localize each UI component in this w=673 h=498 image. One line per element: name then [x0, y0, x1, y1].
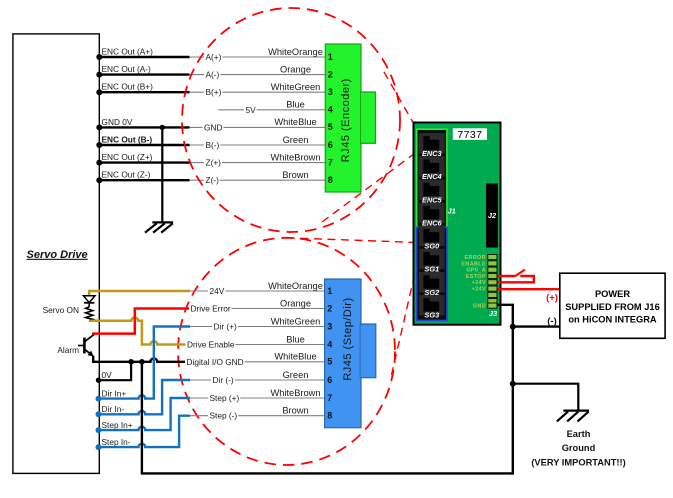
svg-text:POWER: POWER [595, 289, 630, 299]
svg-text:24V: 24V [210, 286, 225, 296]
node junction (-) [510, 324, 516, 330]
label ENC Out (B-) [102, 134, 153, 144]
svg-text:ENC Out (A+): ENC Out (A+) [102, 46, 154, 56]
pin 1 RJ45 encoder [328, 52, 333, 62]
svg-text:Dir (+): Dir (+) [214, 322, 238, 332]
wire Digital I/O GND (black, emitter to RJ45) [93, 356, 190, 362]
svg-text:(+): (+) [546, 292, 558, 303]
svg-text:WhiteGreen: WhiteGreen [271, 316, 321, 326]
svg-text:Orange: Orange [280, 64, 311, 74]
svg-text:Dir In-: Dir In- [102, 404, 125, 414]
svg-text:1: 1 [327, 286, 332, 296]
connector SG3 jack [419, 295, 445, 315]
label Dir In- [102, 404, 125, 414]
ground (signal ground under encoder GND) [145, 222, 173, 232]
pad J3-8 [488, 299, 497, 304]
svg-text:Brown: Brown [282, 170, 308, 180]
node junction ground bus [139, 359, 145, 365]
POWER SUPPLIED FROM J16 box [560, 273, 665, 338]
pin 3 RJ45 step/dir [327, 321, 332, 331]
svg-text:B(-): B(-) [206, 140, 220, 150]
label +24V [472, 287, 486, 293]
wire ENC Out (B+) from servo drive [96, 89, 189, 95]
svg-text:ENC Out (B-): ENC Out (B-) [102, 134, 153, 144]
wire color label Brown [282, 170, 308, 180]
wire color label Blue (step/dir) [286, 334, 305, 344]
svg-text:J2: J2 [488, 211, 497, 220]
wire Drive Enable (dark yellow) [89, 317, 190, 344]
wire switch to +24V (red) [498, 276, 534, 282]
zoom callout line to ENC3 (lower) [322, 152, 417, 222]
svg-text:Z(+): Z(+) [206, 158, 222, 168]
label SG1 [424, 265, 439, 274]
wire color label WhiteBrown [270, 152, 320, 162]
node label A(-) [204, 70, 220, 80]
node label Dir (+) [212, 322, 238, 332]
connector SG1 jack [419, 249, 445, 269]
pad J3-9 [488, 303, 497, 308]
servo drive box [13, 34, 99, 474]
label J1 [448, 207, 456, 216]
wire ENC Out (Z+) from servo drive [96, 160, 189, 166]
label ENC6 [422, 219, 443, 228]
svg-text:Step (+): Step (+) [210, 393, 240, 403]
pin 4 RJ45 encoder [328, 105, 333, 115]
wire (-) to POWER box [513, 325, 560, 327]
svg-text:WhiteBrown: WhiteBrown [270, 152, 320, 162]
zoom callout ellipse (step/dir detail) [178, 238, 395, 465]
node label Z(+) [204, 158, 222, 168]
svg-text:6: 6 [327, 375, 332, 385]
wire color label WhiteGreen (step/dir) [271, 316, 321, 326]
label ESTOP [466, 274, 486, 280]
label Earth Ground (VERY IMPORTANT!!) [531, 429, 625, 468]
svg-text:ENABLE: ENABLE [461, 261, 486, 267]
wire color label WhiteOrange [268, 47, 323, 57]
label SG2 [424, 288, 440, 297]
label SG3 [424, 311, 440, 320]
svg-text:(VERY IMPORTANT!!): (VERY IMPORTANT!!) [531, 458, 625, 468]
node GND junction [160, 125, 165, 130]
svg-text:WhiteOrange: WhiteOrange [268, 47, 323, 57]
svg-text:B(+): B(+) [206, 87, 222, 97]
pin 2 RJ45 encoder [328, 69, 333, 79]
wire to RJ45 step/dir pin 7 [190, 397, 325, 399]
svg-text:Dir (-): Dir (-) [213, 375, 234, 385]
pin 6 RJ45 step/dir [327, 375, 332, 385]
pin 6 RJ45 encoder [328, 140, 333, 150]
pin 7 RJ45 step/dir [327, 393, 332, 403]
svg-text:Blue: Blue [286, 100, 305, 110]
svg-text:4: 4 [327, 339, 332, 349]
wire color label Green (step/dir) [283, 370, 309, 380]
wire GND from J3 [142, 305, 513, 474]
svg-text:ESTOP: ESTOP [466, 274, 486, 280]
svg-text:6: 6 [328, 140, 333, 150]
svg-text:7: 7 [327, 393, 332, 403]
node junction earth branch [510, 381, 516, 387]
label ENC Out (B+) [102, 82, 154, 92]
wire 0V [96, 362, 131, 383]
wire color label Orange [280, 64, 311, 74]
svg-text:GND 0V: GND 0V [102, 117, 133, 127]
zoom callout ellipse (encoder detail) [182, 8, 400, 232]
wire to RJ45 encoder pin 2 [190, 74, 326, 76]
svg-text:A(+): A(+) [206, 52, 222, 62]
connector SG2 jack [419, 272, 445, 292]
wire to RJ45 encoder pin 4 [218, 109, 325, 111]
pad J3-1 [488, 255, 497, 260]
wire color label Orange (step/dir) [280, 298, 311, 308]
label J3 [489, 309, 498, 318]
svg-text:4: 4 [328, 105, 333, 115]
svg-text:J3: J3 [489, 309, 498, 318]
svg-text:RJ45 (Encoder): RJ45 (Encoder) [340, 78, 352, 162]
node label Dir (-) [211, 375, 235, 385]
label ENC Out (A+) [102, 46, 154, 56]
wire color label WhiteBlue (step/dir) [274, 352, 316, 362]
svg-text:on HiCON INTEGRA: on HiCON INTEGRA [568, 315, 657, 325]
svg-text:ENC Out (B+): ENC Out (B+) [102, 82, 154, 92]
wire Drive Error (red) [93, 309, 190, 336]
label 0V [102, 370, 113, 380]
svg-text:ERROR: ERROR [465, 255, 486, 261]
svg-text:Drive Error: Drive Error [191, 304, 231, 314]
label (+) [546, 292, 558, 303]
svg-text:WhiteBlue: WhiteBlue [274, 352, 316, 362]
wire ESTOP (red) [498, 275, 516, 277]
wire GND to ground [161, 127, 163, 222]
wire ENC Out (Z-) from servo drive [96, 177, 189, 183]
wire +24V to POWER (+) (red) [498, 288, 561, 290]
pad J3-7 [488, 292, 497, 297]
label Servo Drive [27, 249, 88, 261]
connector group J1 SG frame [417, 227, 447, 320]
connector group J1 ENC frame [417, 129, 447, 227]
node label B(+) [204, 87, 222, 97]
wire 24V (dark yellow) [89, 291, 190, 296]
pin 2 RJ45 step/dir [327, 303, 332, 313]
transistor Q1 (Alarm output) [78, 335, 94, 357]
wire ENC Out (B-) from servo drive [96, 142, 189, 148]
svg-text:2: 2 [327, 303, 332, 313]
wire to RJ45 step/dir pin 5 [190, 361, 325, 363]
zoom callout line to SG0 (upper) [287, 238, 418, 243]
pad J3-2 [488, 261, 497, 266]
svg-text:WhiteGreen: WhiteGreen [271, 82, 321, 92]
svg-text:ENC Out (Z+): ENC Out (Z+) [102, 152, 153, 162]
svg-text:(-): (-) [547, 316, 557, 327]
svg-text:5: 5 [327, 357, 332, 367]
svg-text:5V: 5V [246, 105, 257, 115]
svg-text:8: 8 [327, 411, 332, 421]
connector RJ45 (Step/Dir) body [325, 279, 376, 428]
svg-text:+24V: +24V [472, 287, 486, 293]
svg-text:Servo Drive: Servo Drive [27, 249, 88, 261]
wire to RJ45 encoder pin 6 [190, 144, 326, 146]
connector RJ45 (Encoder) body [325, 44, 375, 192]
ground (earth) [557, 411, 589, 422]
label GND [473, 304, 486, 310]
pin 1 RJ45 step/dir [327, 286, 332, 296]
wire Step In- (blue) [96, 416, 191, 450]
pad J3-4 [488, 273, 497, 278]
wire to RJ45 encoder pin 5 [190, 126, 326, 128]
svg-text:8: 8 [328, 175, 333, 185]
wire color label WhiteBrown (step/dir) [270, 388, 320, 398]
pin 3 RJ45 encoder [328, 87, 333, 97]
connector J2 [486, 184, 498, 248]
node label Drive Error [189, 304, 232, 314]
wire GND 0V from servo drive [96, 124, 189, 130]
wire Dir In+ (blue) [96, 327, 191, 402]
node label Step (+) [208, 393, 240, 403]
pin 5 RJ45 encoder [328, 122, 333, 132]
label ENC Out (A-) [102, 64, 152, 74]
label RJ45 (Step/Dir) [342, 297, 354, 380]
node label 24V [208, 286, 225, 296]
label ENC4 [422, 172, 442, 181]
label +24V [472, 280, 486, 286]
pad J3-5 [488, 280, 497, 285]
svg-text:A(-): A(-) [206, 70, 220, 80]
node label Digital I/O GND [185, 357, 245, 367]
label Step In- [102, 437, 131, 447]
wire to earth ground [513, 384, 579, 411]
label Alarm [57, 345, 79, 355]
svg-text:0V: 0V [102, 370, 113, 380]
svg-text:Step (-): Step (-) [210, 411, 238, 421]
svg-text:Step In+: Step In+ [102, 420, 133, 430]
svg-text:SUPPLIED FROM J16: SUPPLIED FROM J16 [565, 302, 660, 312]
svg-text:WhiteBrown: WhiteBrown [270, 388, 320, 398]
connector ENC3 jack [419, 133, 445, 153]
label Step In+ [102, 420, 133, 430]
svg-text:SG3: SG3 [424, 311, 440, 320]
wire color label WhiteBlue [274, 117, 316, 127]
zoom callout line to ENC3 (upper) [384, 72, 418, 131]
wire color label Green [283, 135, 309, 145]
svg-text:7737: 7737 [457, 129, 482, 141]
wire to RJ45 step/dir pin 2 [190, 308, 325, 310]
wire Step In+ (blue) [96, 398, 191, 433]
svg-text:Green: Green [283, 370, 309, 380]
wire color label WhiteOrange (step/dir) [268, 281, 323, 291]
wire to RJ45 step/dir pin 8 [190, 415, 325, 417]
svg-text:Ground: Ground [562, 443, 596, 453]
wire to RJ45 step/dir pin 4 [190, 344, 325, 346]
node label GND [203, 122, 224, 132]
svg-text:ENC Out (A-): ENC Out (A-) [102, 64, 152, 74]
wire color label Brown (step/dir) [282, 406, 308, 416]
node label A(+) [204, 52, 222, 62]
label ERROR [465, 255, 486, 261]
diode D1 (Servo ON opto LED) [83, 296, 95, 307]
pin 5 RJ45 step/dir [327, 357, 332, 367]
label ENABLE [461, 261, 486, 267]
pin 8 RJ45 step/dir [327, 411, 332, 421]
node junction 0V riser [128, 359, 134, 365]
label Servo ON [43, 305, 79, 315]
wire to RJ45 encoder pin 1 [190, 56, 326, 58]
svg-text:Z(-): Z(-) [206, 175, 220, 185]
svg-text:Digital I/O GND: Digital I/O GND [187, 357, 244, 367]
label GP0_A [466, 268, 486, 274]
label Dir In+ [102, 388, 127, 398]
PCB 7737 board [414, 123, 501, 325]
node label 5V [244, 105, 257, 115]
svg-text:GND: GND [204, 122, 222, 132]
svg-text:Alarm: Alarm [57, 345, 79, 355]
resistor R1 (Servo ON) [86, 307, 93, 321]
label ENC Out (Z-) [102, 170, 151, 180]
svg-text:Brown: Brown [282, 406, 308, 416]
wire ENC Out (A+) from servo drive [96, 54, 189, 60]
switch SW1 (E-stop, blade) [516, 270, 525, 276]
svg-text:7: 7 [328, 157, 333, 167]
svg-text:Drive Enable: Drive Enable [187, 340, 235, 350]
label RJ45 (Encoder) [340, 78, 352, 162]
zoom callout line to SG1 (lower) [392, 262, 418, 375]
pin 8 RJ45 encoder [328, 175, 333, 185]
pin 7 RJ45 encoder [328, 157, 333, 167]
node label Drive Enable [186, 340, 236, 350]
wire Dir In- (blue) [96, 380, 191, 417]
svg-text:GP0_A: GP0_A [466, 268, 486, 274]
svg-text:Servo ON: Servo ON [43, 305, 79, 315]
svg-text:+24V: +24V [472, 280, 486, 286]
label ENC3 [422, 149, 443, 158]
svg-text:1: 1 [328, 52, 333, 62]
svg-text:Dir In+: Dir In+ [102, 388, 127, 398]
wire color label WhiteGreen [271, 82, 321, 92]
label ENC Out (Z+) [102, 152, 153, 162]
svg-text:WhiteOrange: WhiteOrange [268, 281, 323, 291]
svg-text:Orange: Orange [280, 298, 311, 308]
svg-text:WhiteBlue: WhiteBlue [274, 117, 316, 127]
svg-text:RJ45 (Step/Dir): RJ45 (Step/Dir) [342, 297, 354, 380]
svg-text:Blue: Blue [286, 334, 305, 344]
label SG0 [424, 241, 440, 250]
svg-text:J1: J1 [448, 207, 456, 216]
wire to RJ45 encoder pin 3 [190, 91, 326, 93]
svg-text:GND: GND [473, 304, 486, 310]
wire to RJ45 step/dir pin 3 [190, 326, 325, 328]
connector ENC6 jack [419, 203, 445, 223]
svg-text:Green: Green [283, 135, 309, 145]
label 7737 [453, 128, 487, 141]
connector SG0 jack [419, 226, 445, 246]
node label Step (-) [208, 411, 238, 421]
wire to RJ45 step/dir pin 1 [190, 290, 325, 292]
wire ENC Out (A-) from servo drive [96, 72, 189, 78]
svg-text:Earth: Earth [567, 429, 591, 439]
wire to RJ45 encoder pin 8 [190, 179, 326, 181]
svg-text:Step In-: Step In- [102, 437, 131, 447]
pin 4 RJ45 step/dir [327, 339, 332, 349]
wire to RJ45 step/dir pin 6 [190, 379, 325, 381]
svg-text:ENC Out (Z-): ENC Out (Z-) [102, 170, 151, 180]
wire color label Blue [286, 100, 305, 110]
pad J3-6 [488, 286, 497, 291]
pad J3-3 [488, 267, 497, 272]
connector ENC5 jack [419, 180, 445, 200]
label J2 [488, 211, 497, 220]
wire to RJ45 encoder pin 7 [190, 162, 326, 164]
svg-text:3: 3 [327, 321, 332, 331]
node label Z(-) [204, 175, 220, 185]
svg-text:2: 2 [328, 69, 333, 79]
label (-) [547, 316, 557, 327]
node label B(-) [204, 140, 220, 150]
label GND 0V [102, 117, 133, 127]
svg-text:5: 5 [328, 122, 333, 132]
label ENC5 [422, 195, 443, 204]
connector ENC4 jack [419, 156, 445, 176]
svg-text:3: 3 [328, 87, 333, 97]
